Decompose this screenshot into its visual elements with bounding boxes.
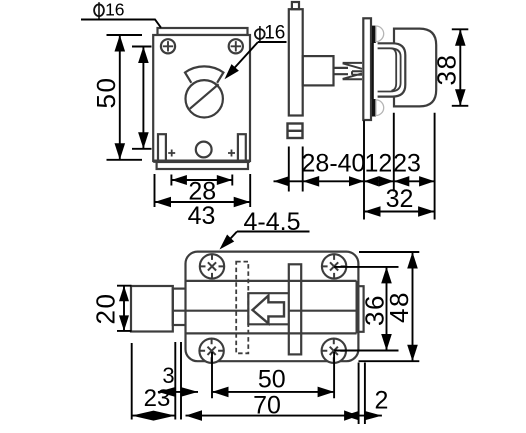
slide button bar [289, 264, 301, 354]
arrows dim 50 bottom [212, 387, 229, 398]
dim 50 outer lines [107, 35, 143, 160]
arrows dim 48 [407, 252, 418, 269]
knob body [394, 29, 436, 107]
dim 48 line [412, 252, 414, 361]
svg-text:4-4.5: 4-4.5 [244, 208, 301, 236]
side view lower clip box [288, 124, 303, 139]
arrows dim 28 [171, 175, 187, 185]
arrows dim 50 outer [115, 35, 126, 52]
direction arrow glyph [253, 296, 285, 324]
svg-text:48: 48 [384, 291, 414, 323]
svg-text:16: 16 [105, 0, 124, 19]
arrowhead 4-4.5 [220, 235, 235, 250]
arrows dim 3 outside [158, 387, 175, 397]
dim 36 line [386, 267, 388, 351]
arrow row1 far-left [274, 176, 289, 186]
ext lines 48 [359, 252, 420, 361]
svg-text:16: 16 [264, 23, 285, 44]
ext lines 36 [334, 267, 398, 351]
leader phi16 top-left [81, 20, 161, 28]
arrowhead phi16 [225, 64, 239, 79]
bolt tip tab [357, 286, 364, 332]
arrows dim 38 [455, 29, 466, 46]
front plate [153, 35, 250, 161]
side view mounting plate bar [289, 9, 303, 115]
dim row B lines [132, 415, 382, 417]
label phi16 top-left [94, 0, 124, 19]
arrows dim 2 outside [344, 411, 359, 420]
arrows dim 12 diamond [364, 176, 379, 186]
dim row2 line 32 [364, 211, 435, 213]
svg-text:50: 50 [91, 77, 121, 109]
bolt box [248, 293, 288, 324]
cylinder circle [186, 80, 223, 117]
strike plate hidden (dashed) [236, 262, 248, 354]
spindle spring coupler [343, 63, 362, 79]
rear plate gasket bottom [372, 99, 376, 117]
bottom center hole [196, 142, 212, 158]
svg-text:23: 23 [393, 150, 421, 178]
bottom view neck [173, 289, 186, 325]
side view top tab [292, 2, 299, 9]
front plate top flange [158, 28, 248, 35]
arrows dim 32 [364, 206, 381, 217]
knob clip outer [378, 43, 406, 96]
ext lines 28-40 row [289, 113, 435, 220]
dim 28 lines [171, 175, 232, 186]
rear plate bar [363, 18, 371, 120]
plus mark left [168, 150, 175, 157]
svg-text:50: 50 [258, 366, 286, 394]
arrow 28-40 left [303, 176, 320, 187]
bolt channel band [187, 281, 357, 334]
svg-text:2: 2 [375, 387, 389, 415]
knob clip middle [378, 48, 401, 91]
rear plate gasket middle [372, 43, 374, 99]
arrows dim 36 [381, 267, 392, 284]
dim row A lines [158, 391, 334, 393]
plus mark right [228, 150, 235, 157]
screw C bottom-left [199, 339, 223, 363]
bottom view knob block [131, 286, 173, 332]
ext lines 50 [212, 352, 334, 398]
cylinder slash [190, 84, 219, 109]
screw top-right [229, 39, 243, 53]
svg-text:70: 70 [253, 392, 281, 420]
mounting tab right [238, 134, 246, 161]
dim 43 lines [155, 174, 251, 207]
screw A top-left [200, 254, 224, 278]
screw B top-right [322, 254, 346, 278]
svg-text:43: 43 [188, 202, 216, 230]
knob cutout cover [376, 44, 405, 97]
leader phi16 cylinder [228, 42, 287, 75]
screw top-left [161, 39, 175, 53]
cam fan sector [185, 66, 223, 82]
dim 38 lines [452, 29, 469, 106]
svg-text:20: 20 [91, 293, 121, 325]
arrows dim 50 inner [138, 47, 149, 64]
svg-text:12: 12 [364, 150, 392, 178]
svg-text:23: 23 [144, 385, 171, 412]
arrows dim 70 [186, 410, 203, 421]
rear plate gasket top [372, 26, 376, 43]
mounting tab left [158, 134, 166, 161]
spindle thin shaft [334, 68, 349, 74]
centerline left [174, 310, 249, 312]
latch body [186, 252, 359, 362]
arrows dim 20 [119, 286, 129, 302]
spindle hub box [303, 56, 334, 85]
screw D bottom-right [322, 339, 346, 363]
dim 50 inner lines [132, 47, 152, 149]
svg-text:28-40: 28-40 [302, 150, 366, 178]
arrows dim 23 top [394, 176, 410, 186]
knob clip inner [392, 48, 397, 91]
dim 20 lines [117, 286, 132, 331]
dim row1 line [274, 180, 435, 182]
front plate bottom thick edge [153, 159, 250, 162]
ext lines bottom-left [132, 342, 181, 420]
svg-text:38: 38 [432, 54, 462, 86]
arrow 28-40 right [349, 176, 364, 186]
front plate bottom flange [157, 162, 248, 169]
svg-text:32: 32 [386, 185, 414, 213]
spring washer dome bottom [376, 100, 384, 116]
arrows dim 23 diamond [132, 411, 154, 421]
ext lines bottom-right [359, 363, 365, 425]
arrows dim 43 [155, 197, 172, 208]
centerline right [289, 310, 357, 312]
label phi16 cylinder [255, 23, 285, 44]
spring washer dome top [376, 26, 384, 42]
leader 4-4.5 [224, 232, 310, 246]
